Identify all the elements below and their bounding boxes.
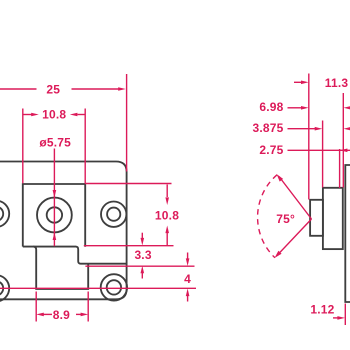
svg-text:3.3: 3.3 [134,248,151,262]
dim 6.98 tail [288,107,302,109]
dim 1.12 tail [333,317,339,319]
svg-text:3.875: 3.875 [252,121,283,135]
dim 10.8 top left tail [23,114,32,116]
dim 8.9 right ext [87,292,89,322]
square bottom ext to right [84,245,174,247]
arrow 4 up [186,289,190,297]
svg-text:8.9: 8.9 [53,308,70,322]
arrow 3.875 right end [344,127,350,131]
hole bottom-left partial outer [0,275,9,301]
front view: lower tab outline [33,247,88,289]
svg-text:75°: 75° [276,212,295,226]
dim 3.3 upper tail [141,233,143,239]
dim 4 lower tail [187,295,189,301]
svg-text:2.75: 2.75 [259,143,283,157]
dim 1.12 ext [344,304,346,326]
fov lower ray [277,219,312,256]
arrow 6.98 left end [301,106,309,110]
side view: PCB board edge [345,165,350,302]
dim 11.3 tail [294,81,302,83]
dim 10.8 top right ext [84,109,86,184]
dim 25 extension line [126,74,128,172]
front view: housing square bottom edge with step to right ledge [23,247,127,264]
front view: PCB plate outline [0,162,127,300]
arrow 10.8 top pointing right [31,113,39,117]
step ext line [85,265,194,267]
hole top-right inner [107,208,120,221]
svg-text:10.8: 10.8 [155,209,179,223]
arrow 3.3 up [141,266,145,274]
dim 8.9 left ext [35,292,37,322]
hole top-left partial outer [0,201,9,227]
side ext line 2.75 [339,149,341,188]
hole big outer circle (o5.75) [37,198,72,233]
svg-text:6.98: 6.98 [259,100,283,114]
side ext line lens front [308,74,310,200]
arrow 3.875 left end [315,127,323,131]
arrow 1.12 [337,316,345,320]
arrow 8.9 left [36,313,44,317]
right dim 10.8 upper segment [166,185,168,198]
side view: lens barrel [310,200,323,236]
dim 10.8 top right tail [78,114,86,116]
hole top-right outer [101,202,126,227]
svg-text:1.12: 1.12 [310,302,334,316]
arrow 25 right [118,87,126,91]
svg-text:10.8: 10.8 [42,108,66,122]
arrow 11.3 [301,81,309,85]
arrow 10.8 top pointing left [70,113,78,117]
dim 4 upper tail [187,253,189,259]
fov upper ray [279,177,312,220]
svg-text:11.3: 11.3 [325,76,349,90]
hole bottom-left partial inner [0,281,3,295]
fov dashed arc [258,175,277,258]
bottom holes centerline [0,287,196,289]
arrow 2.75 [340,149,348,153]
hole bottom-right inner [107,280,121,294]
dim 25 line right tail [72,88,120,90]
dim 10.8 top left ext [22,109,24,184]
hole top-left partial inner [0,207,3,221]
svg-text:4: 4 [184,272,191,286]
front view: sensor housing square [23,184,85,247]
arrow fov upper [277,174,284,182]
svg-text:25: 25 [46,82,60,96]
arrow right 10.8 up [165,226,169,234]
side ext line housing front [322,121,324,188]
dim 3.3 lower tail [141,272,143,278]
square top ext to right [85,183,172,185]
dim 25 line left [0,88,37,90]
arrow right 10.8 down [165,197,169,205]
svg-text:ø5.75: ø5.75 [39,135,71,149]
dim 8.9 line right [76,313,81,315]
dim 3.875 tail [288,128,316,130]
right dim 10.8 lower segment [166,233,168,245]
arrow 6.98 right end [344,106,350,110]
arrow 8.9 right [81,313,89,317]
arrow o5.75 up [53,232,57,240]
hole bottom-right outer [101,274,127,300]
arrow o5.75 down [53,190,57,198]
side ext line 343 [342,93,344,188]
dim 2.75 line [288,149,350,151]
arrow 3.3 down [141,238,145,246]
arrow 4 down [186,258,190,266]
side view: lens housing block [323,188,343,249]
hole big inner circle [47,207,62,222]
o5.75 leader upper [53,149,55,247]
arrow fov lower [275,251,282,258]
dim 8.9 line left [44,313,53,315]
